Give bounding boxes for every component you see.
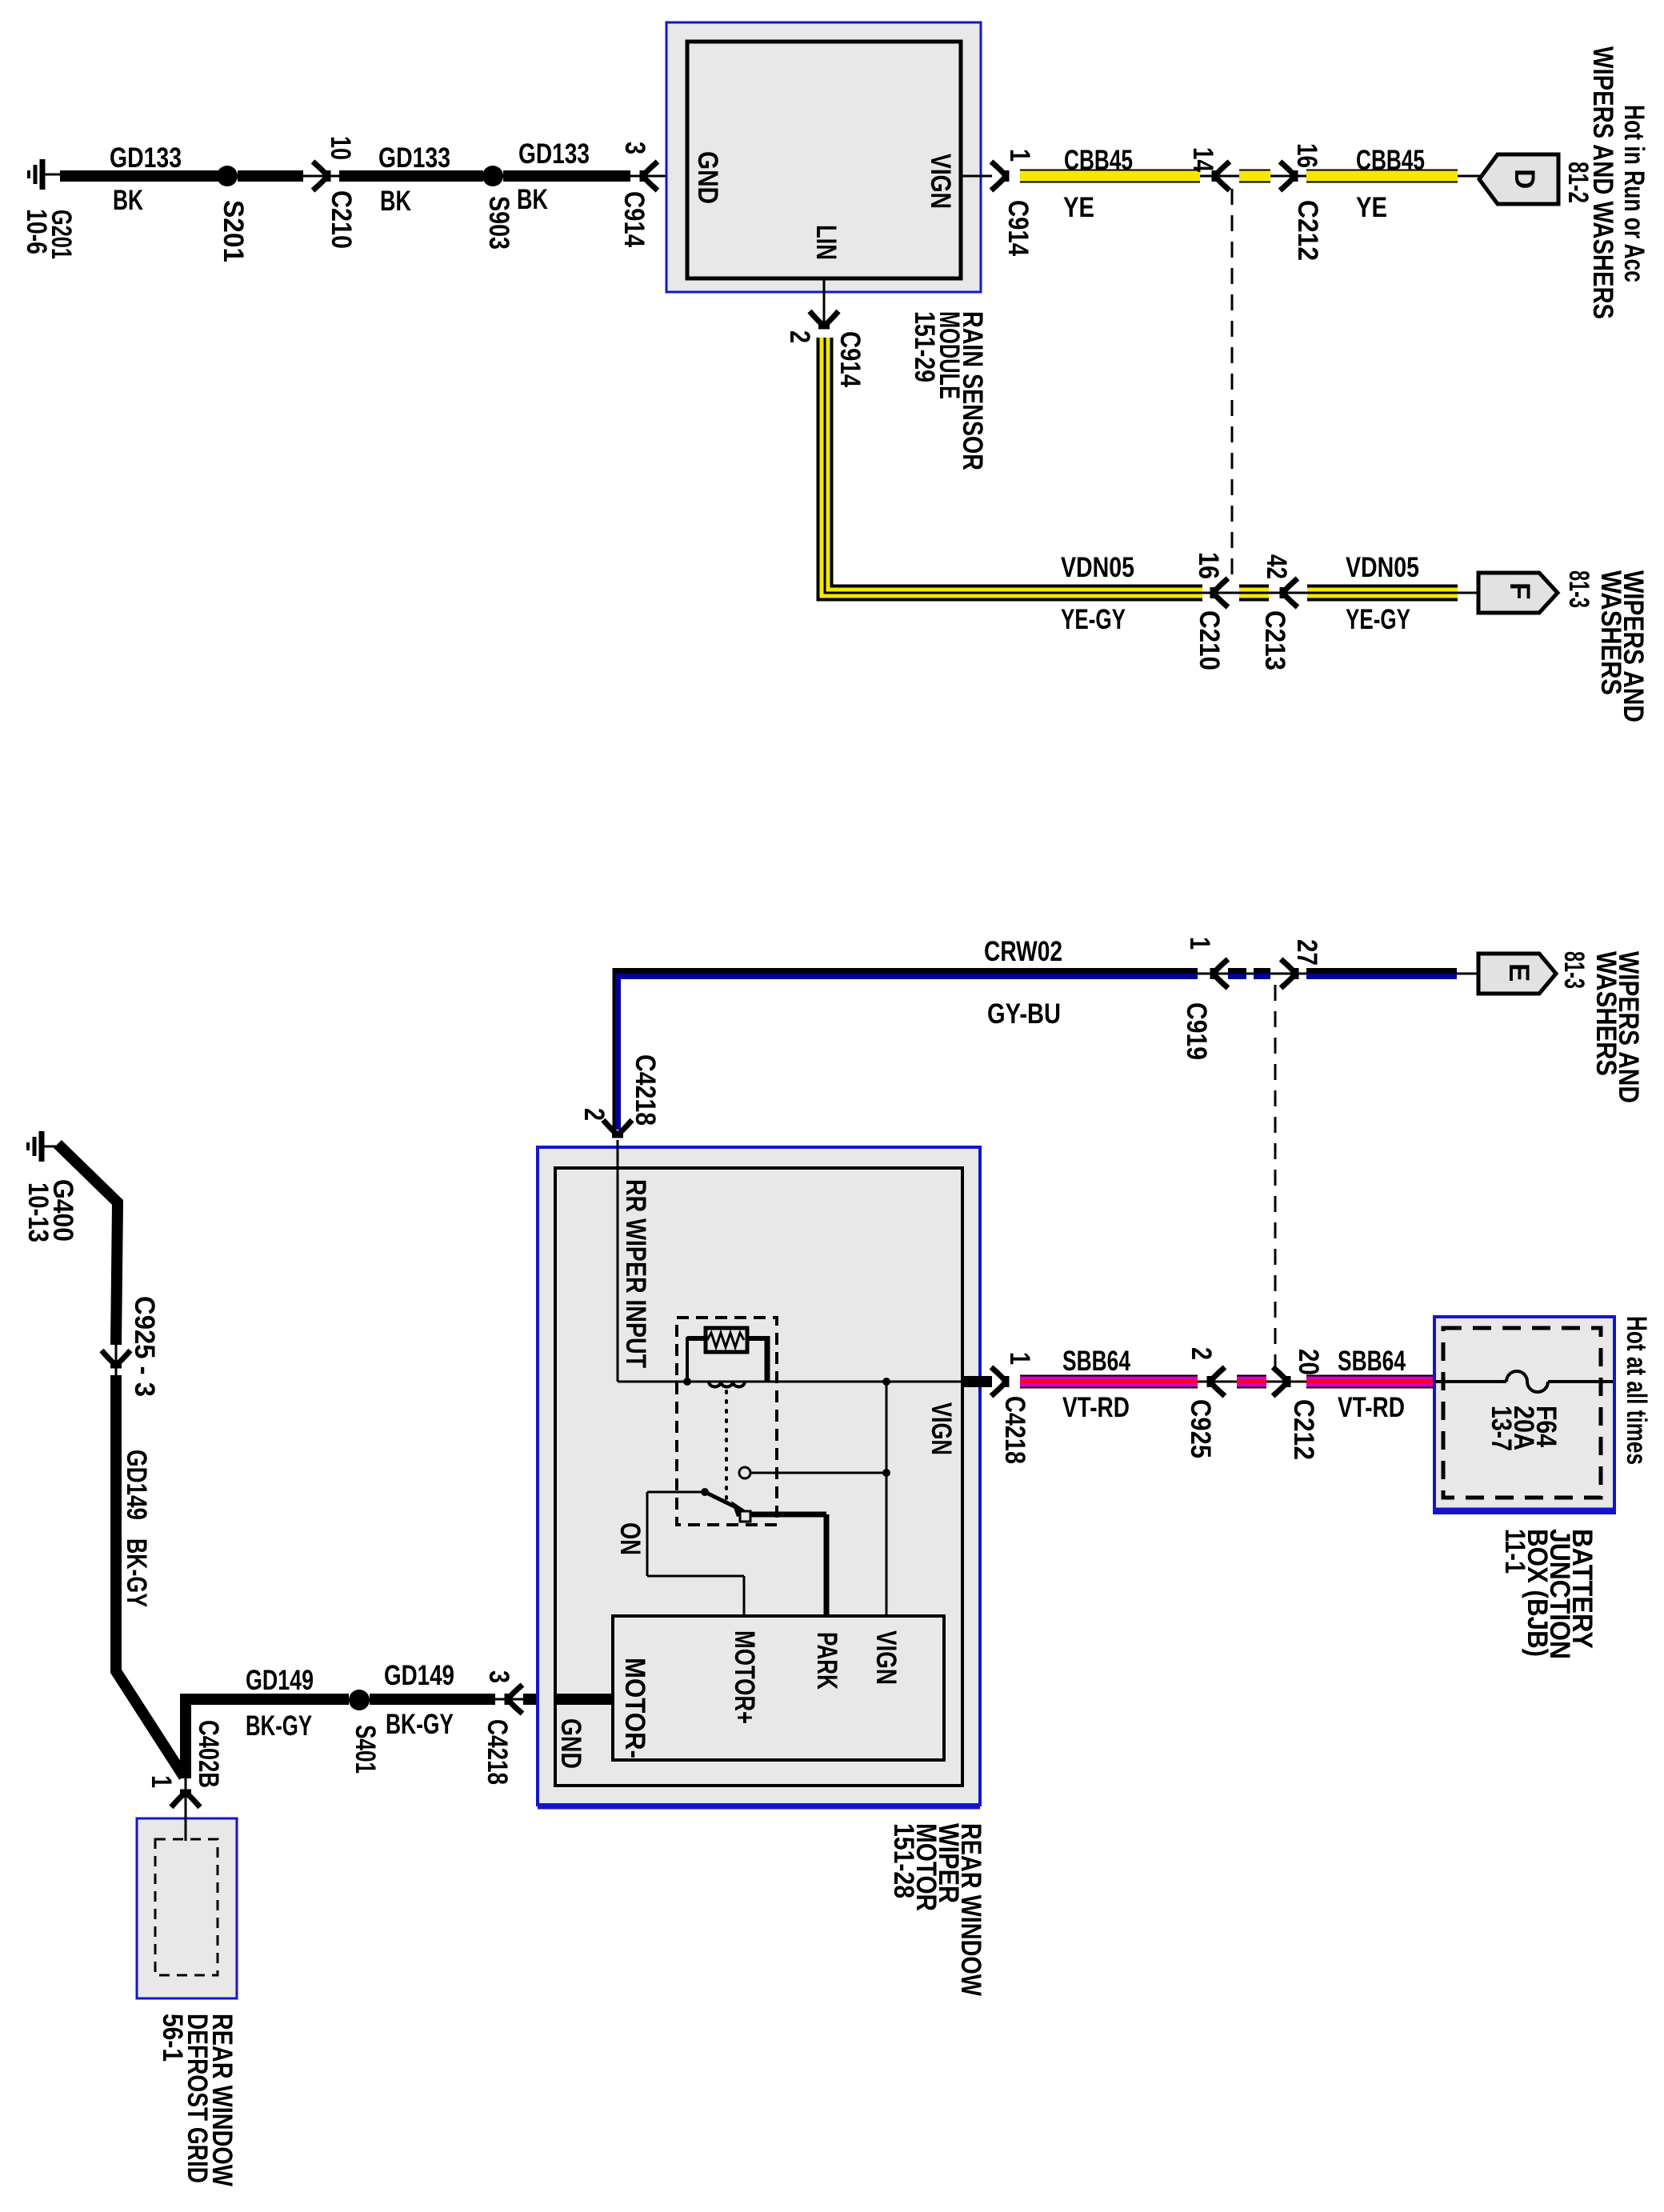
connector C925 pin 2 / C212 pin 20 (1198, 1381, 1306, 1383)
connector C210 pin 16 / C213 pin 42 (1202, 592, 1307, 594)
junction dot resistor-left (683, 1378, 691, 1386)
svg-text:YE-GY: YE-GY (1346, 604, 1410, 635)
svg-text:BK: BK (517, 184, 548, 215)
svg-text:BK-GY: BK-GY (121, 1538, 152, 1607)
svg-text:BK: BK (113, 185, 143, 216)
svg-text:MOTOR+: MOTOR+ (729, 1630, 760, 1724)
svg-text:VT-RD: VT-RD (1338, 1392, 1405, 1423)
dashed harness line bottom (1274, 985, 1277, 1378)
svg-text:VIGN: VIGN (925, 154, 956, 209)
connector C4218 pin 3 (GND) (495, 1698, 528, 1701)
wire VDN05 YE-GY segment 2 (1307, 585, 1458, 602)
svg-text:S401: S401 (350, 1725, 381, 1774)
wire SBB64 VT-RD segment 2 (1306, 1375, 1434, 1389)
wire to C925-3 connector (58, 1144, 118, 1345)
connector D to wipers and washers (1458, 175, 1480, 178)
splice S201 (217, 166, 238, 186)
svg-text:WASHERS: WASHERS (1595, 570, 1626, 695)
svg-text:81-2: 81-2 (1562, 162, 1594, 203)
svg-text:C4218: C4218 (630, 1054, 661, 1126)
svg-text:1: 1 (146, 1775, 177, 1788)
svg-text:GND: GND (555, 1718, 586, 1769)
wire to PARK pin (750, 1512, 826, 1518)
svg-text:1: 1 (1184, 937, 1215, 950)
svg-text:PARK: PARK (811, 1632, 842, 1690)
svg-text:3: 3 (483, 1670, 514, 1683)
svg-text:16: 16 (1291, 143, 1322, 168)
wire GD133 segment G201 to S201 (60, 170, 227, 182)
connector C210 pin 10 (303, 175, 339, 178)
svg-text:C925 - 3: C925 - 3 (129, 1296, 160, 1397)
MOTOR- to GND wire (555, 1694, 613, 1705)
svg-text:C914: C914 (618, 191, 650, 247)
svg-text:C210: C210 (1194, 610, 1225, 670)
svg-text:VIGN: VIGN (870, 1630, 902, 1685)
svg-text:LIN: LIN (810, 225, 842, 260)
svg-text:Hot in Run or Acc: Hot in Run or Acc (1618, 105, 1650, 282)
svg-text:RR WIPER INPUT: RR WIPER INPUT (620, 1179, 651, 1368)
svg-text:VDN05: VDN05 (1346, 552, 1419, 583)
svg-text:C4218: C4218 (482, 1719, 513, 1785)
svg-text:D: D (1509, 169, 1540, 189)
svg-text:GD149: GD149 (121, 1450, 152, 1520)
splice S903 (482, 166, 503, 186)
pin 1 C4218 VIGN exit (962, 1376, 992, 1387)
svg-text:81-3: 81-3 (1563, 570, 1594, 608)
svg-text:2: 2 (578, 1108, 610, 1121)
svg-text:2: 2 (1186, 1347, 1217, 1360)
svg-text:C4218: C4218 (999, 1396, 1030, 1464)
relay dashed box (677, 1318, 777, 1525)
svg-text:13-7: 13-7 (1486, 1406, 1517, 1451)
svg-text:ON: ON (614, 1522, 646, 1555)
wire GD133 segment C210 to S903 (339, 170, 483, 182)
svg-text:SBB64: SBB64 (1062, 1346, 1130, 1377)
svg-text:42: 42 (1261, 554, 1292, 579)
wire VDN05 YE-GY from LIN pin (825, 338, 1202, 593)
switch upper contact (739, 1467, 750, 1478)
junction dot park-vign (882, 1469, 890, 1477)
wire GD149 corner to defrost grid (180, 1694, 191, 1778)
connector C402B pin 1 (185, 1778, 187, 1806)
svg-text:GD133: GD133 (378, 142, 450, 174)
svg-text:CBB45: CBB45 (1064, 145, 1133, 176)
connector F to wipers and washers (1458, 592, 1478, 594)
svg-text:BK-GY: BK-GY (246, 1710, 312, 1742)
svg-text:GD149: GD149 (246, 1665, 314, 1696)
connector C914 pin 3 (GND) (630, 175, 687, 178)
svg-text:C402B: C402B (193, 1720, 224, 1788)
svg-text:YE: YE (1356, 192, 1387, 223)
svg-text:VT-RD: VT-RD (1062, 1392, 1130, 1423)
svg-text:10: 10 (325, 136, 356, 160)
svg-text:27: 27 (1291, 939, 1322, 966)
wire SBB64 VT-RD segment 1 (1020, 1375, 1198, 1389)
svg-text:11-1: 11-1 (1499, 1529, 1530, 1574)
svg-text:C210: C210 (326, 190, 357, 249)
connector C925 - 3 (115, 1345, 118, 1377)
svg-text:14: 14 (1187, 147, 1218, 172)
relay resistor (706, 1328, 747, 1352)
svg-text:151-28: 151-28 (888, 1823, 919, 1898)
svg-text:GY-BU: GY-BU (987, 998, 1061, 1030)
wire GD133 segment S903 to C914 (503, 170, 630, 182)
wire CRW02 GY-BU from wipers circuit (615, 971, 1198, 1130)
svg-text:C919: C919 (1181, 1002, 1212, 1060)
svg-text:SBB64: SBB64 (1338, 1346, 1406, 1377)
rear window wiper motor box (538, 1147, 980, 1805)
svg-text:GD133: GD133 (518, 138, 590, 170)
svg-text:20: 20 (1293, 1349, 1324, 1375)
pin 1 VIGN output (961, 175, 992, 178)
connector C919 pin 1 / pin 27 (1198, 973, 1306, 975)
svg-text:1: 1 (1004, 149, 1035, 162)
svg-text:S201: S201 (218, 200, 249, 262)
ground G201 (29, 159, 61, 190)
svg-text:3: 3 (619, 142, 650, 154)
svg-text:BK-GY: BK-GY (386, 1709, 454, 1740)
svg-text:C925: C925 (1185, 1399, 1216, 1458)
rear window defrost grid box (137, 1818, 237, 1998)
fuse F64 (1434, 1380, 1506, 1383)
svg-text:C213: C213 (1259, 610, 1290, 670)
svg-text:C212: C212 (1288, 1399, 1319, 1460)
svg-text:MOTOR-: MOTOR- (619, 1658, 650, 1758)
svg-text:CBB45: CBB45 (1356, 145, 1425, 176)
svg-text:151-29: 151-29 (909, 311, 940, 382)
svg-text:YE: YE (1063, 192, 1094, 223)
RR wiper input line (617, 1170, 619, 1382)
svg-text:VDN05: VDN05 (1061, 552, 1134, 583)
connector E to wipers and washers (1457, 973, 1478, 975)
svg-text:CRW02: CRW02 (984, 936, 1062, 967)
svg-text:C212: C212 (1292, 200, 1323, 261)
svg-text:Hot at all times: Hot at all times (1621, 1316, 1652, 1465)
svg-text:VIGN: VIGN (926, 1402, 957, 1455)
svg-text:E: E (1503, 963, 1534, 982)
svg-text:2: 2 (784, 330, 815, 343)
wire CBB45 YE segment 1 (1020, 170, 1200, 183)
svg-text:56-1: 56-1 (157, 2014, 188, 2062)
splice S401 (349, 1690, 370, 1710)
wire to VIGN pin (886, 1382, 888, 1616)
svg-text:1: 1 (1004, 1352, 1035, 1365)
pin 2 C4218 RR wiper input (603, 1120, 632, 1135)
dashed harness line top (1231, 189, 1234, 582)
switch arm and pivot (701, 1488, 709, 1496)
svg-text:YE-GY: YE-GY (1061, 604, 1126, 635)
wire CRW02 segment 2 (1306, 968, 1457, 974)
main VIGN line inside motor (618, 1381, 962, 1383)
svg-text:GND: GND (692, 151, 723, 204)
wire GD149 segment S401 to C4218 (370, 1694, 495, 1705)
svg-text:16: 16 (1193, 552, 1224, 579)
junction dot vign (882, 1378, 890, 1386)
relay coil (709, 1382, 745, 1387)
relay actuation dotted line (725, 1391, 728, 1501)
svg-text:BK: BK (380, 186, 411, 217)
svg-text:WASHERS: WASHERS (1590, 951, 1622, 1076)
svg-text:GD133: GD133 (110, 142, 182, 174)
svg-text:C914: C914 (834, 331, 866, 387)
svg-text:10-6: 10-6 (21, 209, 52, 254)
wire GD149 BK-GY ground leg (116, 1375, 184, 1777)
svg-text:81-3: 81-3 (1558, 951, 1590, 989)
wire GD133 segment S201 to C210 (238, 170, 303, 182)
rain sensor module box (666, 22, 981, 292)
svg-text:GD149: GD149 (384, 1660, 454, 1691)
ground G400 (28, 1131, 60, 1162)
wire to MOTOR+ pin (647, 1491, 705, 1494)
switch lower contact (740, 1511, 750, 1522)
motor sub-box (613, 1616, 944, 1760)
svg-text:C914: C914 (1002, 200, 1034, 256)
resistor branch wires (687, 1336, 706, 1341)
wire CBB45 YE segment 2 (1306, 170, 1458, 183)
battery junction box (1434, 1317, 1614, 1513)
svg-text:10-13: 10-13 (22, 1182, 54, 1242)
connector C212 pins 14/16 (1200, 175, 1306, 178)
svg-text:F: F (1504, 582, 1535, 599)
svg-text:S903: S903 (483, 196, 514, 250)
pin 2 LIN output (823, 278, 826, 329)
